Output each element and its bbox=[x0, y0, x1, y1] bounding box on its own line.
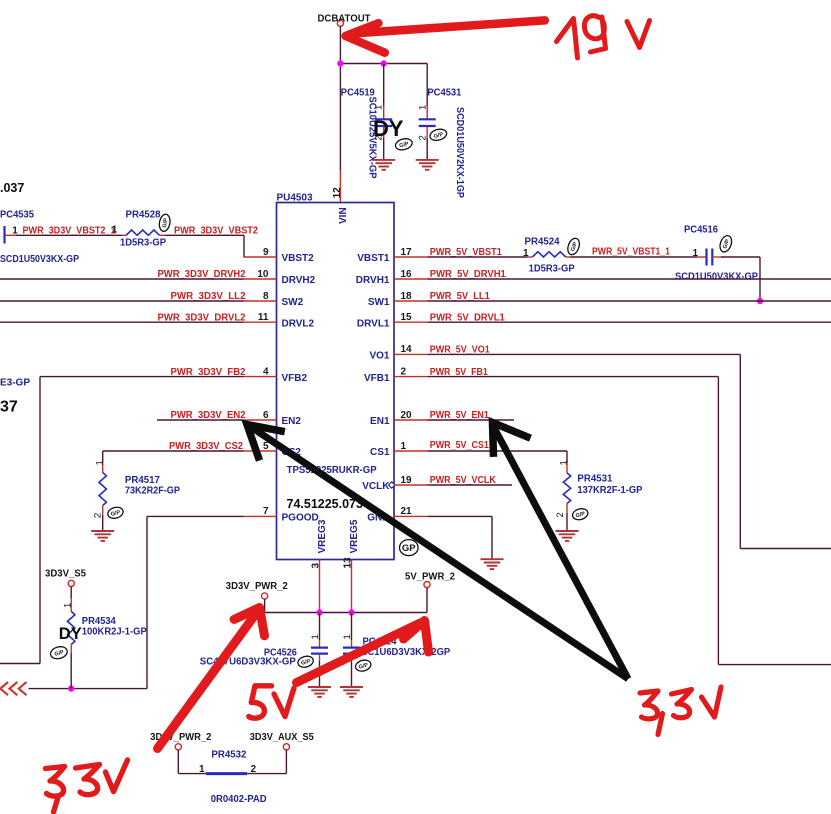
svg-text:21: 21 bbox=[401, 506, 413, 517]
stamp GP PR4531 bbox=[571, 507, 589, 521]
svg-text:4: 4 bbox=[263, 366, 269, 377]
svg-text:PU4503: PU4503 bbox=[277, 192, 313, 203]
svg-text:0R0402-PAD: 0R0402-PAD bbox=[211, 794, 267, 805]
handwriting 5V bbox=[249, 686, 294, 718]
svg-text:EN2: EN2 bbox=[282, 416, 302, 427]
svg-text:7: 7 bbox=[263, 506, 269, 517]
handwriting 19 V bbox=[557, 16, 650, 58]
net PGOOD wire from pin 7 bbox=[147, 515, 244, 517]
svg-text:CS1: CS1 bbox=[370, 447, 390, 458]
capacitor PC4516 SCD1U50V3KX-GP bbox=[707, 249, 713, 266]
svg-text:37: 37 bbox=[0, 399, 18, 416]
resistor PR4532 0R0402-PAD bbox=[177, 750, 179, 774]
svg-text:1: 1 bbox=[94, 460, 105, 465]
svg-text:3D3V_S5: 3D3V_S5 bbox=[45, 568, 86, 579]
node 3D3V_PWR(hidden)_2 terminal bbox=[175, 744, 181, 750]
svg-text:73K2R2F-GP: 73K2R2F-GP bbox=[125, 486, 180, 497]
svg-text:1D5R3-GP: 1D5R3-GP bbox=[120, 238, 166, 249]
stamp GP PR4534 bbox=[49, 645, 68, 661]
svg-text:8: 8 bbox=[263, 291, 269, 302]
svg-text:5V_PWR_2: 5V_PWR_2 bbox=[405, 571, 455, 582]
svg-text:18: 18 bbox=[401, 291, 413, 302]
wire bottom power rail bbox=[265, 612, 427, 614]
svg-text:GP: GP bbox=[402, 543, 416, 554]
svg-text:PR4531: PR4531 bbox=[577, 474, 612, 485]
svg-text:20: 20 bbox=[401, 410, 413, 421]
svg-text:VO1: VO1 bbox=[369, 351, 389, 362]
pin 12 VIN stub bbox=[339, 170, 341, 203]
resistor PR4531 137KR2F-1-GP bbox=[566, 451, 568, 463]
stamp GP PC4519 bbox=[394, 137, 413, 152]
svg-text:3: 3 bbox=[310, 563, 321, 569]
pin VREG3 wire bbox=[319, 560, 321, 613]
svg-text:15: 15 bbox=[401, 312, 413, 323]
svg-text:17: 17 bbox=[401, 247, 413, 258]
wire PC4516 to LL1 rail bbox=[712, 256, 721, 258]
stamp GP inside IC bbox=[400, 540, 419, 556]
junction PC4516 / LL1 bbox=[757, 298, 763, 304]
svg-text:PGOOD: PGOOD bbox=[282, 513, 319, 524]
svg-text:SCD1U50V3KX-GP: SCD1U50V3KX-GP bbox=[675, 272, 758, 283]
svg-text:VFB1: VFB1 bbox=[364, 373, 390, 384]
svg-text:13: 13 bbox=[342, 557, 353, 569]
svg-text:PR4517: PR4517 bbox=[125, 475, 160, 486]
svg-text:3D3V_PWR_2: 3D3V_PWR_2 bbox=[226, 581, 288, 592]
right pin stubs with numbers 17 16 18 15 14 2 20 1 19 21 bbox=[394, 256, 428, 258]
handwriting 3,3V bottom left bbox=[46, 760, 128, 812]
left pin stubs with numbers 9 10 8 11 4 6 5 7 bbox=[244, 256, 277, 258]
stamp GP PC4516 bbox=[718, 234, 734, 254]
svg-text:9: 9 bbox=[263, 247, 269, 258]
capacitor PC4531 bbox=[426, 64, 428, 107]
svg-text:PR4524: PR4524 bbox=[525, 237, 560, 248]
node 3D3V_S5 terminal bbox=[68, 580, 74, 586]
ground below pin 21 bbox=[481, 559, 504, 569]
svg-text:1: 1 bbox=[342, 634, 353, 639]
resistor PR4534 100KR2J-1-GP bbox=[70, 587, 72, 598]
stamp GP PC4531 bbox=[429, 127, 448, 142]
svg-text:VREG5: VREG5 bbox=[349, 519, 360, 553]
wire DCBATOUT down to VIN bbox=[339, 26, 341, 170]
resistor PR4528 1D5R3-GP bbox=[126, 230, 159, 235]
svg-text:SW1: SW1 bbox=[368, 297, 390, 308]
svg-text:137KR2F-1-GP: 137KR2F-1-GP bbox=[577, 485, 642, 496]
svg-text:3D3V_AUX_S5: 3D3V_AUX_S5 bbox=[250, 732, 314, 743]
junction PR4534 / PGOOD rail bbox=[68, 685, 74, 691]
svg-text:19: 19 bbox=[401, 475, 413, 486]
capacitor PC4526 SC477U6D3V3KX-GP bbox=[319, 613, 321, 641]
svg-text:PR4534: PR4534 bbox=[82, 616, 116, 627]
svg-text:2: 2 bbox=[555, 512, 566, 517]
stamp GP PC4524 bbox=[354, 658, 372, 672]
svg-text:2: 2 bbox=[251, 764, 257, 775]
svg-text:6: 6 bbox=[263, 410, 269, 421]
svg-text:DCBATOUT: DCBATOUT bbox=[318, 13, 371, 24]
capacitor PC4519 bbox=[383, 64, 385, 107]
wire top horizontal rail bbox=[340, 63, 427, 65]
svg-text:PWR_5V_VBST1_1: PWR_5V_VBST1_1 bbox=[592, 247, 670, 258]
stamp GP PR4517 bbox=[107, 506, 125, 520]
svg-text:14: 14 bbox=[401, 344, 413, 355]
svg-text:PC4516: PC4516 bbox=[684, 225, 718, 236]
junction at rail / PC4519 branch bbox=[381, 60, 387, 66]
ground below PC4531 bbox=[416, 160, 439, 170]
op-amp U1 PU4503 TPS51225 controller box bbox=[277, 203, 395, 560]
node 3D3V_AUX_S5 terminal bbox=[283, 744, 289, 750]
svg-text:VBST2: VBST2 bbox=[282, 253, 315, 264]
stamp GP PR4528 bbox=[158, 213, 171, 232]
red arrow to 3D3V_PWR_2 bbox=[158, 608, 265, 749]
svg-text:PR4532: PR4532 bbox=[211, 750, 246, 761]
svg-text:1D5R3-GP: 1D5R3-GP bbox=[529, 264, 575, 275]
svg-text:10: 10 bbox=[257, 269, 269, 280]
wire VBST2_1 bbox=[16, 234, 122, 236]
svg-text:PC4535: PC4535 bbox=[0, 210, 34, 221]
svg-text:1: 1 bbox=[199, 764, 205, 775]
svg-text:VFB2: VFB2 bbox=[282, 373, 308, 384]
stamp GP PR4524 bbox=[566, 237, 582, 257]
svg-text:DRVL2: DRVL2 bbox=[282, 318, 315, 329]
pin VCLK diamond marker bbox=[389, 482, 395, 488]
red arrow to DCBATOUT bbox=[346, 20, 545, 52]
svg-text:2: 2 bbox=[401, 366, 407, 377]
pin VREG5 wire bbox=[351, 560, 353, 613]
svg-text:11: 11 bbox=[258, 312, 269, 323]
junction VREG3 rail bbox=[316, 609, 322, 615]
svg-text:1: 1 bbox=[559, 460, 570, 465]
svg-text:TPS51225RUKR-GP: TPS51225RUKR-GP bbox=[287, 465, 377, 476]
node 5V_PWR_2 terminal bbox=[424, 582, 430, 588]
svg-text:1: 1 bbox=[112, 224, 118, 235]
svg-text:DRVL1: DRVL1 bbox=[357, 318, 390, 329]
black arrow to EN2 bbox=[251, 427, 628, 679]
svg-text:1: 1 bbox=[693, 248, 699, 259]
ground below PC4526 bbox=[308, 687, 331, 697]
svg-text:SW2: SW2 bbox=[282, 297, 304, 308]
black arrow to EN1 bbox=[492, 424, 628, 679]
svg-text:2: 2 bbox=[417, 135, 428, 140]
svg-text:1: 1 bbox=[401, 441, 407, 452]
svg-text:VREG3: VREG3 bbox=[317, 519, 328, 553]
svg-text:.037: .037 bbox=[0, 181, 24, 195]
capacitor PC4524 SC1U6D3V3KX-2GP bbox=[351, 613, 353, 641]
handwriting 3,3V bottom right bbox=[640, 687, 721, 735]
node 3D3V_PWR_2 terminal bbox=[262, 593, 268, 599]
svg-text:1: 1 bbox=[310, 634, 321, 639]
stamp GP PC4526 bbox=[297, 655, 315, 669]
svg-text:VIN: VIN bbox=[338, 207, 349, 224]
ground below PC4519 bbox=[372, 160, 395, 170]
svg-text:PC4531: PC4531 bbox=[427, 88, 461, 99]
junction VREG5 rail bbox=[348, 609, 354, 615]
svg-text:PWR_5V_CS1: PWR_5V_CS1 bbox=[430, 440, 489, 451]
svg-text:DY: DY bbox=[373, 116, 404, 141]
svg-text:DY: DY bbox=[59, 625, 82, 643]
svg-text:PR4528: PR4528 bbox=[126, 210, 161, 221]
red arrow to 5V_PWR_2 bbox=[297, 621, 429, 683]
svg-text:E3-GP: E3-GP bbox=[0, 378, 30, 389]
junction at DCBATOUT rail / PC4519 bbox=[337, 60, 343, 66]
ground below PR4517 bbox=[91, 531, 114, 541]
svg-text:16: 16 bbox=[401, 269, 413, 280]
svg-text:EN1: EN1 bbox=[370, 416, 390, 427]
svg-text:1: 1 bbox=[417, 105, 428, 110]
capacitor PC4535 at left edge bbox=[3, 226, 5, 244]
svg-text:100KR2J-1-GP: 100KR2J-1-GP bbox=[82, 627, 147, 638]
ground below PC4524 bbox=[340, 687, 363, 697]
node DCBATOUT terminal bbox=[337, 20, 343, 26]
svg-text:1: 1 bbox=[63, 603, 74, 608]
off-page chevrons bbox=[19, 682, 27, 695]
svg-text:VBST1: VBST1 bbox=[357, 253, 390, 264]
svg-text:SCD1U50V3KX-GP: SCD1U50V3KX-GP bbox=[0, 254, 79, 265]
svg-text:DRVH2: DRVH2 bbox=[282, 275, 316, 286]
svg-text:DRVH1: DRVH1 bbox=[356, 275, 390, 286]
svg-text:SCD01U50V2KX-1GP: SCD01U50V2KX-1GP bbox=[454, 107, 465, 198]
svg-text:2: 2 bbox=[92, 513, 103, 518]
svg-text:74.51225.073: 74.51225.073 bbox=[287, 497, 364, 511]
svg-text:12: 12 bbox=[332, 187, 343, 199]
ground below PR4531 bbox=[556, 531, 579, 541]
wire GND pin 21 bbox=[428, 515, 493, 517]
svg-text:VCLK: VCLK bbox=[362, 481, 390, 492]
resistor PR4517 73K2R2F-GP bbox=[102, 451, 104, 463]
